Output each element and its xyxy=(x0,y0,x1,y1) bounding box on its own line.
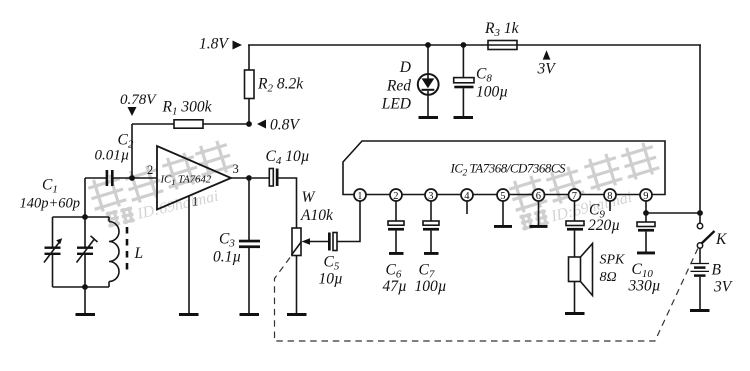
ground C6 xyxy=(389,252,404,255)
node tank top xyxy=(82,214,88,220)
dashed mechanical link pot-switch xyxy=(275,249,698,342)
svg-text:0.01µ: 0.01µ xyxy=(95,148,130,164)
capacitor C10 xyxy=(645,213,647,222)
svg-text:7: 7 xyxy=(572,191,577,202)
pin4 stub xyxy=(466,201,468,214)
svg-text:47µ: 47µ xyxy=(383,278,407,295)
pin 2 xyxy=(390,189,402,201)
svg-text:W: W xyxy=(302,189,317,206)
IC2 TA7368 box xyxy=(343,141,665,195)
capacitor C8 xyxy=(462,45,464,78)
pin8 stub xyxy=(609,201,611,211)
wire pin2 down xyxy=(395,201,397,221)
speaker SPK xyxy=(569,257,581,282)
pin 4 xyxy=(461,189,473,201)
potentiometer W xyxy=(292,228,301,256)
svg-text:5: 5 xyxy=(500,191,505,202)
svg-text:K: K xyxy=(715,231,727,248)
svg-text:Red: Red xyxy=(386,77,411,94)
svg-text:10µ: 10µ xyxy=(319,271,343,288)
wire IC1 pin3 to node xyxy=(231,177,249,179)
svg-text:2: 2 xyxy=(393,191,398,202)
LED D xyxy=(418,74,439,95)
svg-text:IC1 TA7642: IC1 TA7642 xyxy=(160,174,212,187)
wire 1.8V supply rail xyxy=(248,44,701,46)
capacitor C5 xyxy=(328,233,331,251)
wire pin6 down xyxy=(538,201,540,225)
ground speaker xyxy=(565,312,585,315)
svg-text:3: 3 xyxy=(428,191,433,202)
pin 5 xyxy=(497,189,509,201)
wire R1 left to C2 node xyxy=(131,124,133,178)
svg-text:4: 4 xyxy=(464,191,470,202)
wire tank top xyxy=(53,216,110,218)
svg-text:2: 2 xyxy=(147,163,153,177)
capacitor C6 xyxy=(388,221,404,225)
node pin9 xyxy=(643,210,649,216)
wire tank to ground xyxy=(84,287,86,313)
battery B xyxy=(691,263,710,265)
inductor L xyxy=(108,217,110,222)
svg-text:100µ: 100µ xyxy=(476,84,508,101)
pin 8 xyxy=(604,189,616,201)
capacitor C4 xyxy=(252,177,269,179)
svg-text:8Ω: 8Ω xyxy=(600,270,617,285)
capacitor C3 xyxy=(248,178,250,313)
wire C2 node down to tank top xyxy=(84,178,86,217)
svg-text:1: 1 xyxy=(192,195,198,209)
svg-text:R3 1k: R3 1k xyxy=(484,20,520,39)
pin 7 xyxy=(569,189,581,201)
wire IC1 pin1 down xyxy=(188,196,190,314)
wiper arrow xyxy=(309,241,328,243)
svg-text:100µ: 100µ xyxy=(415,278,447,295)
wire pin7 down xyxy=(574,201,576,221)
svg-text:B: B xyxy=(712,262,722,279)
capacitor C1b trimmer xyxy=(84,217,86,287)
pin 9 xyxy=(640,189,652,201)
svg-text:D: D xyxy=(399,59,411,76)
svg-text:LED: LED xyxy=(381,96,411,113)
ground LED xyxy=(419,116,439,119)
node LED top xyxy=(425,42,431,48)
capacitor C1a variable xyxy=(52,217,54,287)
svg-text:0.78V: 0.78V xyxy=(120,92,157,108)
svg-text:1.8V: 1.8V xyxy=(199,36,229,53)
pin 3 xyxy=(425,189,437,201)
label 3V supply xyxy=(543,50,551,59)
ground tank xyxy=(76,313,96,316)
resistor R1 xyxy=(132,123,249,125)
svg-text:C4 10µ: C4 10µ xyxy=(266,148,310,167)
ground pin6 xyxy=(530,225,548,228)
ground C3 xyxy=(240,313,260,316)
svg-text:R2 8.2k: R2 8.2k xyxy=(257,76,304,95)
wire pin9 node to switch column xyxy=(646,212,700,214)
svg-text:1: 1 xyxy=(357,191,362,202)
pin 1 xyxy=(354,189,366,201)
wire tank bottom xyxy=(53,286,110,288)
pin 6 xyxy=(533,189,545,201)
wire C5 to IC2 pin1 xyxy=(337,201,360,242)
node pin3 xyxy=(246,175,252,181)
ground C7 xyxy=(424,252,439,255)
wire battery to ground xyxy=(699,277,701,309)
svg-text:6: 6 xyxy=(536,191,541,202)
ground C10 xyxy=(637,252,655,255)
switch K xyxy=(699,213,701,223)
svg-text:0.8V: 0.8V xyxy=(270,117,300,134)
capacitor C7 xyxy=(423,221,439,225)
node switch column xyxy=(697,210,703,216)
svg-text:3: 3 xyxy=(233,162,239,176)
node tank bottom xyxy=(82,284,88,290)
label 0.8V xyxy=(257,120,266,129)
LED D wires xyxy=(427,45,429,75)
svg-text:L: L xyxy=(134,245,144,262)
capacitor C9 xyxy=(566,221,584,226)
node C8 top xyxy=(461,42,467,48)
wire pin3 down xyxy=(430,201,432,221)
ground pot xyxy=(287,313,307,316)
svg-text:9: 9 xyxy=(643,191,648,202)
svg-text:A10k: A10k xyxy=(300,207,334,224)
svg-text:R1 300k: R1 300k xyxy=(162,99,213,118)
wire LED to ground xyxy=(427,96,429,116)
svg-text:3V: 3V xyxy=(713,279,733,296)
wire switch to battery xyxy=(699,248,701,263)
ground C8 xyxy=(454,116,474,119)
ground battery xyxy=(690,309,710,312)
wire right rail down xyxy=(699,45,701,213)
svg-text:0.1µ: 0.1µ xyxy=(213,249,241,266)
svg-text:3V: 3V xyxy=(537,61,557,78)
wire C4 to pot xyxy=(279,178,297,228)
ground IC1 pin1 xyxy=(179,313,199,316)
inductor core (dashed) xyxy=(126,227,129,274)
node R1/R2 junction xyxy=(246,121,252,127)
svg-text:8: 8 xyxy=(607,191,612,202)
wire pin9 down xyxy=(645,201,647,213)
op-amp IC1 TA7642 xyxy=(134,177,157,179)
node C2 / pin2 junction xyxy=(129,175,135,181)
ground pin5 xyxy=(494,225,512,228)
capacitor C2 xyxy=(85,177,132,179)
svg-text:140p+60p: 140p+60p xyxy=(20,196,81,212)
wire pot to ground xyxy=(296,256,298,314)
resistor R3 xyxy=(488,41,517,50)
svg-text:220µ: 220µ xyxy=(588,217,620,234)
wire speaker to ground xyxy=(574,282,576,313)
resistor R2 xyxy=(248,45,250,124)
svg-text:SPK: SPK xyxy=(600,253,626,268)
wire pin5 down xyxy=(502,201,504,225)
svg-text:330µ: 330µ xyxy=(628,278,661,295)
